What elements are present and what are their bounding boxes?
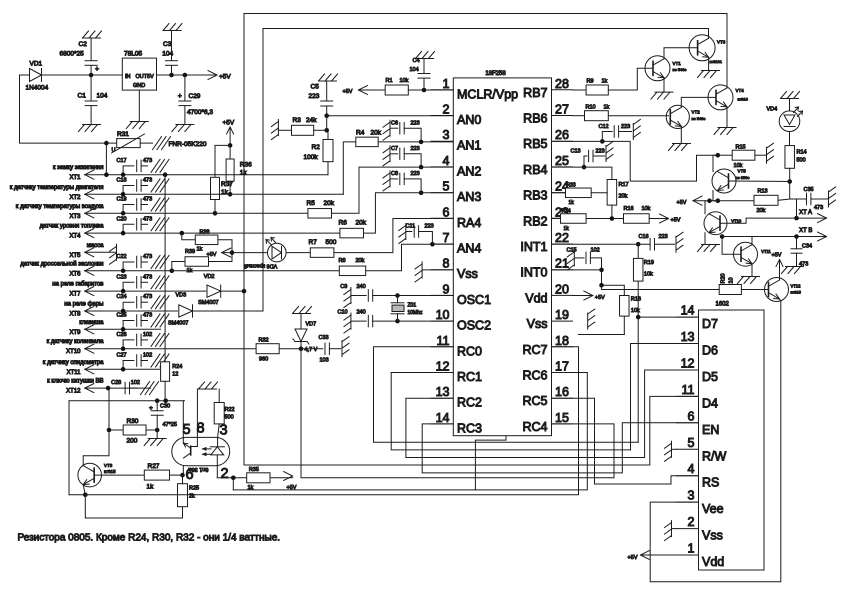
wire VD2 cathode to frame column bbox=[221, 290, 244, 292]
junction bbox=[121, 346, 126, 351]
chassis ground left of C7 bbox=[383, 146, 390, 166]
svg-text:XT11: XT11 bbox=[67, 370, 82, 376]
svg-text:C34: C34 bbox=[802, 244, 812, 250]
svg-text:RC6: RC6 bbox=[522, 369, 547, 383]
svg-text:XT5: XT5 bbox=[69, 253, 81, 259]
junction bbox=[794, 216, 799, 221]
wire XT A to C35 node bbox=[796, 199, 798, 218]
junction bbox=[121, 211, 126, 216]
pin 13 RC2 bbox=[431, 385, 482, 410]
svg-text:FNR-05K220: FNR-05K220 bbox=[169, 141, 207, 148]
svg-text:1: 1 bbox=[688, 542, 695, 556]
chassis ground right of C16 bbox=[676, 232, 683, 252]
pin20 Vdd +5V arrow bbox=[573, 291, 606, 301]
wire bus frame-D4 bbox=[244, 14, 699, 466]
wire INT0 row bbox=[552, 269, 602, 271]
svg-text:R3: R3 bbox=[293, 117, 302, 124]
svg-text:47*25: 47*25 bbox=[163, 422, 177, 428]
optocoupler U2 6n136 bbox=[172, 437, 230, 472]
capacitor C1 104 bbox=[78, 75, 108, 125]
svg-text:5: 5 bbox=[688, 436, 695, 450]
svg-text:R5: R5 bbox=[307, 200, 316, 207]
junction bbox=[104, 172, 109, 177]
ground above C4 bbox=[416, 52, 435, 59]
zener diode VD7 4,7 V bbox=[293, 314, 318, 354]
chassis ground right of C12 bbox=[633, 120, 640, 140]
wire XT2 riser to R4 bbox=[343, 142, 356, 194]
LCD pin 5 R/W bbox=[677, 436, 727, 464]
svg-text:10: 10 bbox=[436, 308, 450, 322]
pin 26 RB5 bbox=[523, 128, 572, 151]
chassis ground left of C15 bbox=[567, 250, 574, 270]
svg-text:+: + bbox=[149, 405, 153, 412]
svg-text:OSC1: OSC1 bbox=[457, 293, 491, 307]
svg-text:22: 22 bbox=[555, 231, 569, 245]
svg-text:2: 2 bbox=[443, 103, 450, 117]
junction bbox=[600, 139, 605, 144]
chassis ground at XT5 масса bbox=[110, 244, 117, 264]
resistor R33 1k bbox=[552, 183, 608, 207]
svg-text:102: 102 bbox=[143, 353, 152, 359]
+5V arrow at VT12 collector bbox=[772, 253, 784, 281]
ground below C34 bbox=[782, 267, 804, 274]
svg-text:R25: R25 bbox=[189, 486, 199, 492]
svg-text:223: 223 bbox=[411, 146, 420, 152]
LCD pin 13 D6 bbox=[677, 330, 719, 358]
svg-text:7: 7 bbox=[443, 231, 450, 245]
junction bbox=[121, 289, 126, 294]
svg-text:C2: C2 bbox=[79, 41, 88, 48]
svg-text:R18: R18 bbox=[631, 297, 641, 303]
svg-text:C27: C27 bbox=[117, 353, 127, 359]
svg-text:10k: 10k bbox=[400, 78, 409, 84]
svg-text:R19: R19 bbox=[644, 260, 654, 266]
ground below C1 bbox=[79, 125, 101, 132]
LCD pin 6 EN bbox=[677, 409, 720, 437]
svg-text:Vss: Vss bbox=[527, 317, 548, 331]
svg-text:XT A: XT A bbox=[799, 210, 812, 216]
ground above C3 bbox=[163, 24, 182, 31]
+5V arrow at LCD Vdd bbox=[628, 551, 677, 562]
capacitor C20 473 bbox=[117, 216, 170, 233]
ground above VD4 bbox=[781, 92, 800, 99]
svg-text:R16: R16 bbox=[624, 206, 634, 212]
capacitor C15 102 bbox=[567, 248, 602, 270]
+5V arrow feeding R36 R37 bbox=[223, 120, 235, 146]
ground below 78L05 bbox=[126, 122, 148, 129]
wire opto pin2 to R35 bbox=[217, 477, 246, 479]
resistor R15 10k bbox=[718, 145, 767, 170]
junction bbox=[419, 191, 424, 196]
svg-text:к датчику температуры двигател: к датчику температуры двигателя bbox=[10, 185, 104, 191]
junction bbox=[419, 140, 424, 145]
opto pin 8 to ground bbox=[191, 389, 205, 447]
+5V arrow feeding VT5 emitter rail bbox=[677, 196, 755, 206]
svg-text:1: 1 bbox=[443, 77, 450, 91]
LCD pin 2 Vss bbox=[677, 515, 723, 543]
svg-text:473: 473 bbox=[143, 197, 152, 203]
transistor VT10 bbox=[704, 212, 742, 235]
capacitor C30 47*25 electrolytic bbox=[149, 401, 177, 430]
resistor R34 1k bbox=[552, 209, 624, 233]
svg-text:1k: 1k bbox=[187, 268, 193, 274]
ground above opto pin 8 bbox=[199, 382, 218, 389]
svg-text:VD2: VD2 bbox=[204, 274, 215, 280]
svg-text:XT3: XT3 bbox=[69, 214, 81, 220]
terminal XT9 клавиша bbox=[69, 320, 160, 336]
svg-text:1N4004: 1N4004 bbox=[26, 85, 49, 92]
wire input node down to varistor row bbox=[20, 75, 117, 143]
capacitor C22 473 bbox=[117, 254, 170, 271]
svg-text:Резистора 0805. Кроме R24, R30: Резистора 0805. Кроме R24, R30, R32 - он… bbox=[18, 533, 281, 544]
svg-text:10Mhz: 10Mhz bbox=[408, 310, 424, 316]
LED VD6 красный bbox=[244, 238, 286, 270]
junction bbox=[395, 319, 400, 324]
wire VT5 base to R14 node bbox=[729, 180, 790, 183]
resistor R32 960 bbox=[256, 338, 301, 363]
svg-text:R22: R22 bbox=[225, 407, 235, 413]
pin 11 RC0 bbox=[431, 334, 482, 359]
junction bbox=[787, 179, 792, 184]
svg-text:на реле фары: на реле фары bbox=[64, 302, 103, 308]
capacitor C3 104 bbox=[162, 31, 177, 76]
resistor R5 20k bbox=[307, 167, 454, 218]
svg-text:RB5: RB5 bbox=[523, 137, 547, 151]
svg-text:R13: R13 bbox=[758, 189, 768, 195]
resistor R36 1k bbox=[226, 145, 252, 194]
svg-text:AN3: AN3 bbox=[457, 190, 481, 204]
svg-text:XT9: XT9 bbox=[69, 330, 81, 336]
capacitor C7 223 bbox=[390, 146, 421, 167]
junction bbox=[716, 153, 721, 158]
svg-text:4: 4 bbox=[688, 462, 695, 476]
terminal XT5 масса bbox=[69, 243, 116, 259]
chassis ground right of C35 bbox=[829, 187, 836, 207]
junction bbox=[121, 192, 126, 197]
terminal XT4 датчик уровня топлива bbox=[40, 224, 340, 240]
svg-text:R15: R15 bbox=[736, 145, 746, 151]
junction bbox=[636, 315, 641, 320]
wire bus RC3-EN bbox=[422, 423, 698, 473]
chassis ground left of C10 bbox=[344, 313, 351, 333]
wire OSC1 row bbox=[398, 295, 454, 297]
svg-text:4,7 V: 4,7 V bbox=[305, 347, 318, 353]
pin 2 AN0 bbox=[431, 103, 481, 128]
svg-text:датчик дроссельной заслонки: датчик дроссельной заслонки bbox=[20, 260, 103, 267]
capacitor C13 223 bbox=[571, 149, 605, 168]
ground at pin 8 Vss bbox=[415, 262, 453, 282]
svg-text:10k: 10k bbox=[642, 206, 651, 212]
svg-text:14: 14 bbox=[436, 411, 450, 425]
capacitor C26 102 bbox=[117, 332, 170, 349]
terminal XT10 к датчику коленвала bbox=[47, 339, 257, 355]
svg-text:+5V: +5V bbox=[595, 295, 605, 301]
terminal XT1 к замку зажигания bbox=[53, 165, 328, 181]
svg-text:17: 17 bbox=[555, 360, 569, 374]
chassis ground right of C13 bbox=[606, 142, 613, 162]
svg-text:20k: 20k bbox=[757, 208, 766, 214]
wire R31 to chassis bbox=[140, 142, 152, 144]
pin 25 RB4 bbox=[523, 154, 572, 177]
wire node to XT1 row bbox=[105, 143, 107, 175]
svg-text:+: + bbox=[95, 66, 99, 73]
svg-text:C19: C19 bbox=[117, 197, 127, 203]
svg-text:C10: C10 bbox=[338, 310, 348, 316]
pin 5 AN3 bbox=[431, 180, 481, 205]
svg-text:XT8: XT8 bbox=[69, 312, 81, 318]
svg-text:VD4: VD4 bbox=[767, 107, 778, 113]
svg-text:RA4: RA4 bbox=[457, 216, 481, 230]
svg-text:R1: R1 bbox=[386, 78, 393, 84]
svg-text:R30: R30 bbox=[127, 418, 139, 425]
capacitor C25 473 bbox=[117, 313, 170, 330]
pin 7 AN4 bbox=[431, 231, 481, 256]
svg-text:18: 18 bbox=[555, 334, 569, 348]
wire VT10 base to XT A bbox=[720, 218, 797, 223]
wire XT1 net node row bbox=[69, 400, 185, 402]
pin 6 RA4 bbox=[431, 205, 481, 230]
svg-text:1k: 1k bbox=[221, 189, 229, 196]
wire node to R37 top bbox=[215, 145, 230, 177]
svg-text:R36: R36 bbox=[240, 162, 252, 169]
svg-text:473: 473 bbox=[143, 294, 152, 300]
svg-text:C16: C16 bbox=[639, 234, 649, 240]
resistor R30 200 bbox=[109, 418, 157, 445]
wire VT2 collector to VT4 base bbox=[681, 97, 716, 107]
chassis ground right of R15 bbox=[767, 143, 774, 163]
wire bus RC5-RS bbox=[552, 398, 699, 484]
pin 22 INT1 bbox=[520, 231, 572, 254]
svg-text:RB4: RB4 bbox=[523, 163, 547, 177]
junction bbox=[720, 234, 725, 239]
wire VT11 emitter ground bbox=[751, 264, 753, 277]
wire VT8 emitter loop bbox=[69, 494, 85, 496]
svg-text:C30: C30 bbox=[160, 404, 170, 410]
svg-text:500: 500 bbox=[797, 158, 806, 164]
svg-text:R/W: R/W bbox=[702, 449, 727, 463]
svg-text:C23: C23 bbox=[117, 274, 127, 280]
svg-text:1602: 1602 bbox=[716, 302, 730, 308]
wire R20 to INT0 net bbox=[602, 270, 720, 290]
capacitor C5 223 bbox=[309, 81, 333, 116]
svg-text:IN: IN bbox=[125, 74, 131, 80]
svg-text:AN1: AN1 bbox=[457, 139, 481, 153]
svg-text:104: 104 bbox=[162, 51, 173, 58]
svg-text:16: 16 bbox=[555, 385, 569, 399]
svg-text:12: 12 bbox=[172, 372, 178, 378]
wire R19 column bbox=[637, 244, 639, 442]
resistor R27 1k bbox=[144, 463, 182, 491]
LCD pin 4 RS bbox=[677, 462, 720, 490]
svg-text:3: 3 bbox=[219, 423, 227, 439]
svg-text:6: 6 bbox=[185, 467, 193, 483]
wire opto pin2 branch to bus bbox=[232, 478, 234, 490]
junction bbox=[707, 198, 712, 203]
svg-text:78L05: 78L05 bbox=[124, 51, 142, 58]
wire bus pin2-RC6 bbox=[233, 373, 587, 490]
LCD pin 11 D4 bbox=[677, 383, 719, 411]
terminal XT B bbox=[722, 228, 826, 241]
wire XT1 net down to R24 bbox=[164, 175, 166, 362]
transistor VT4 кт8101 bbox=[708, 85, 749, 110]
svg-text:XT4: XT4 bbox=[69, 234, 81, 240]
svg-text:RC1: RC1 bbox=[457, 370, 482, 384]
svg-text:к датчику температуры воздуха: к датчику температуры воздуха bbox=[16, 204, 104, 210]
svg-text:R2: R2 bbox=[312, 144, 321, 151]
svg-text:6: 6 bbox=[688, 409, 695, 423]
resistor R16 10k bbox=[624, 206, 681, 224]
pin 12 RC1 bbox=[431, 360, 482, 385]
svg-text:R37: R37 bbox=[221, 181, 233, 188]
junction bbox=[163, 172, 168, 177]
wire VT3 emitter ground bbox=[708, 57, 710, 70]
junction bbox=[395, 293, 400, 298]
junction bbox=[121, 231, 126, 236]
ground at LCD Vss bbox=[665, 521, 677, 541]
svg-text:RC0: RC0 bbox=[457, 344, 482, 358]
wire +12V input rail bbox=[20, 74, 30, 76]
svg-text:C13: C13 bbox=[571, 149, 581, 155]
capacitor C19 473 bbox=[117, 197, 170, 214]
chassis symbol FNR-05K220 bbox=[153, 137, 207, 150]
svg-text:200: 200 bbox=[127, 438, 138, 445]
svg-text:10k: 10k bbox=[644, 272, 653, 278]
svg-text:102: 102 bbox=[143, 332, 152, 338]
svg-text:5: 5 bbox=[443, 180, 450, 194]
ground above VD7 bbox=[293, 307, 312, 314]
svg-text:223: 223 bbox=[411, 171, 420, 177]
svg-text:RB2: RB2 bbox=[523, 214, 547, 228]
svg-text:R27: R27 bbox=[148, 463, 160, 470]
wire R18 branch bbox=[579, 334, 625, 336]
svg-text:U: U bbox=[112, 148, 116, 154]
junction bbox=[121, 367, 126, 372]
wire XT12 riser bbox=[108, 388, 110, 430]
wire VT11 collector to XT B bbox=[751, 237, 753, 245]
svg-text:C6: C6 bbox=[391, 121, 398, 127]
svg-text:C15: C15 bbox=[567, 248, 577, 254]
svg-text:+5V: +5V bbox=[677, 200, 687, 206]
transistor VT8 кт815 bbox=[78, 430, 116, 495]
svg-text:21: 21 bbox=[555, 257, 569, 271]
svg-text:26: 26 bbox=[555, 128, 569, 142]
wire left branch down bbox=[68, 401, 70, 495]
svg-text:вс 546с: вс 546с bbox=[692, 116, 706, 121]
wire +5V node to VD6 anode bbox=[232, 252, 268, 254]
svg-text:R6: R6 bbox=[339, 220, 348, 227]
wire OSC2 row bbox=[398, 320, 454, 322]
wire INT1 row bbox=[552, 243, 651, 245]
ground at LCD R/W bbox=[665, 441, 677, 461]
wire inner loop top bbox=[263, 29, 709, 39]
wire outer loop top bbox=[244, 14, 727, 88]
junction bbox=[228, 192, 233, 197]
junction bbox=[636, 242, 641, 247]
svg-text:AN0: AN0 bbox=[457, 113, 481, 127]
capacitor C8 223 bbox=[390, 171, 421, 193]
pin 17 RC6 bbox=[522, 360, 572, 383]
svg-text:C5: C5 bbox=[311, 84, 320, 91]
resistor R38 1k bbox=[182, 230, 232, 253]
svg-text:C1: C1 bbox=[78, 93, 87, 100]
transistor VT11 bbox=[734, 242, 772, 266]
junction bbox=[213, 211, 218, 216]
capacitor C11 223 bbox=[406, 224, 434, 245]
wire bus RC0-D7 bbox=[374, 347, 639, 443]
LCD pin 3 Vee bbox=[677, 489, 724, 516]
junction bbox=[228, 143, 233, 148]
svg-text:RC4: RC4 bbox=[522, 420, 547, 434]
svg-text:223: 223 bbox=[659, 234, 668, 240]
junction bbox=[106, 386, 111, 391]
svg-text:4700*6,3: 4700*6,3 bbox=[187, 109, 213, 116]
wire stub under IC a bbox=[475, 427, 506, 490]
svg-text:Vee: Vee bbox=[702, 502, 724, 516]
junction bbox=[422, 88, 427, 93]
svg-text:3: 3 bbox=[688, 489, 695, 503]
resistor R8 20k bbox=[339, 244, 454, 275]
svg-text:GND: GND bbox=[133, 83, 145, 89]
svg-text:RB6: RB6 bbox=[523, 112, 547, 126]
svg-text:R24: R24 bbox=[172, 364, 182, 370]
chassis ground left of C11 bbox=[399, 224, 406, 244]
svg-text:10k: 10k bbox=[734, 163, 743, 169]
pin 16 RC5 bbox=[522, 385, 572, 408]
svg-text:C25: C25 bbox=[117, 313, 127, 319]
svg-text:473: 473 bbox=[143, 216, 152, 222]
resistor R24 12 bbox=[161, 362, 183, 401]
resistor R19 10k bbox=[633, 258, 654, 281]
+5V arrow at VD6 node bbox=[207, 248, 233, 258]
terminal XT A bbox=[797, 210, 827, 223]
wire VT1 collector to VT3 base bbox=[664, 48, 698, 59]
svg-text:9: 9 bbox=[443, 282, 450, 296]
chassis ground right of C33 bbox=[342, 337, 349, 357]
svg-text:20k: 20k bbox=[356, 258, 365, 264]
diode VD3 SM4007 bbox=[168, 292, 193, 326]
svg-text:D5: D5 bbox=[702, 370, 718, 384]
svg-text:R9: R9 bbox=[587, 79, 594, 85]
capacitor C29 4700*6,3 electrolytic bbox=[178, 75, 214, 125]
svg-text:C22: C22 bbox=[117, 254, 127, 260]
wire bus RC1-D6 bbox=[391, 344, 698, 450]
svg-text:EN: EN bbox=[702, 423, 719, 437]
junction bbox=[121, 327, 126, 332]
ground above C5 bbox=[319, 74, 338, 81]
junction bbox=[324, 128, 329, 133]
wire RB4 row to R17 top bbox=[552, 167, 612, 179]
ground below C30 node bbox=[144, 439, 166, 446]
capacitor C2 6800*25 bbox=[60, 38, 100, 75]
terminal XT3 к датчику температуры воздуха bbox=[16, 204, 308, 220]
capacitor C34 473 bbox=[791, 237, 812, 268]
svg-text:Vdd: Vdd bbox=[702, 555, 724, 569]
junction bbox=[610, 216, 615, 221]
svg-text:25: 25 bbox=[555, 154, 569, 168]
svg-text:VD1: VD1 bbox=[30, 61, 43, 68]
svg-text:D4: D4 bbox=[702, 396, 718, 410]
wire regulator output +5V rail bbox=[157, 74, 218, 76]
transistor VT12 кт815 bbox=[765, 278, 802, 302]
svg-text:1k: 1k bbox=[602, 79, 608, 85]
wire VT10 emitter ground bbox=[704, 233, 706, 245]
svg-text:VD6 красный: VD6 красный bbox=[244, 263, 278, 270]
svg-text:18F258: 18F258 bbox=[485, 71, 506, 77]
junction bbox=[430, 242, 435, 247]
svg-text:масса: масса bbox=[87, 243, 104, 249]
svg-text:C11: C11 bbox=[406, 224, 416, 230]
svg-text:VT8: VT8 bbox=[104, 463, 113, 468]
